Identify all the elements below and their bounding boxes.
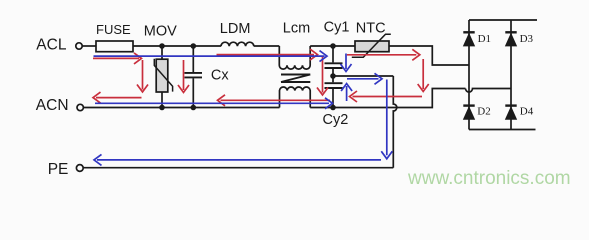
diode D4	[505, 104, 516, 106]
capacitor Cy2 plates	[325, 83, 343, 88]
bridge bottom rail	[469, 129, 536, 131]
red differential current arrow under fuse	[93, 53, 142, 64]
wire ACN stub	[84, 107, 280, 109]
junction dot Cx bottom	[191, 105, 197, 111]
bridge right rail	[510, 20, 512, 130]
wire fuse to LDM	[133, 45, 221, 47]
blue arrow down through Cy1	[341, 54, 352, 72]
red return arrow middle segment	[218, 95, 331, 106]
junction dot Cy2 bottom	[330, 105, 336, 111]
capacitor Cy1 top lead	[332, 46, 334, 62]
red return arrow right segment	[350, 91, 423, 102]
varistor MOV body	[156, 59, 168, 92]
NTC diagonal stroke	[352, 34, 391, 57]
svg-text:Cx: Cx	[211, 68, 229, 84]
svg-text:D1: D1	[478, 33, 491, 45]
capacitor Cy1 to mid node	[332, 69, 334, 76]
wire ACL to fuse	[82, 45, 96, 47]
wire LDM to Lcm	[254, 45, 279, 47]
red arrow down into bridge	[418, 59, 429, 92]
svg-text:LDM: LDM	[220, 21, 251, 37]
svg-text:www.cntronics.com: www.cntronics.com	[407, 168, 571, 189]
red arrow down left of MOV	[137, 60, 148, 92]
svg-text:Cy2: Cy2	[323, 112, 349, 128]
svg-text:NTC: NTC	[356, 21, 386, 37]
blue arrow mid node to PE drop	[347, 73, 382, 84]
diode D2	[463, 104, 474, 106]
red arrow under NTC	[347, 49, 420, 60]
capacitor Cx plates	[185, 73, 203, 78]
svg-text:PE: PE	[48, 161, 69, 178]
bridge top rail	[469, 19, 537, 21]
varistor MOV stub top	[161, 46, 163, 59]
diode D1	[463, 31, 474, 33]
junction dot Cy mid node	[330, 73, 336, 79]
blue arrow up through Cy2	[341, 84, 352, 102]
wire NTC to bridge step	[389, 46, 469, 65]
MOV diagonal stroke	[154, 59, 172, 92]
terminal PE	[76, 165, 83, 172]
thermistor NTC body	[355, 41, 389, 52]
terminal ACL	[76, 43, 82, 49]
svg-text:Lcm: Lcm	[283, 21, 310, 37]
capacitor Cx top lead	[192, 46, 194, 72]
terminal ACN	[77, 104, 83, 110]
varistor MOV stub bottom	[161, 92, 163, 108]
red arrow under LDM	[217, 49, 318, 60]
blue return arrow to PE	[94, 154, 381, 165]
blue line down to PE level	[381, 80, 392, 159]
red return arrow to ACN	[93, 92, 142, 103]
wire bottom Lcm to step	[310, 89, 465, 108]
inductor Lcm bottom winding	[280, 87, 311, 107]
wire PE vertical with hop	[393, 76, 397, 168]
svg-text:D3: D3	[520, 33, 534, 45]
svg-text:D4: D4	[520, 106, 534, 118]
wire hop over left rail	[466, 89, 512, 93]
red arrow down right of MOV	[178, 60, 189, 93]
wire PE horizontal	[84, 167, 394, 169]
svg-text:D2: D2	[477, 106, 490, 118]
wire Lcm to NTC	[310, 45, 355, 47]
svg-text:Cy1: Cy1	[324, 20, 350, 36]
svg-text:ACN: ACN	[36, 97, 69, 114]
fuse FUSE	[96, 41, 133, 52]
svg-text:MOV: MOV	[144, 24, 177, 40]
Lcm core bars	[281, 75, 310, 83]
diode D3	[505, 31, 516, 33]
capacitor Cy2 top lead	[332, 76, 334, 82]
blue common mode line on top	[94, 51, 328, 62]
junction dot Cy1 top	[330, 43, 336, 49]
junction dot MOV bottom	[159, 105, 165, 111]
inductor LDM	[221, 42, 254, 46]
bridge left rail	[468, 20, 470, 130]
wire mid node to PE drop	[333, 75, 393, 77]
capacitor Cy2 bottom lead	[332, 89, 334, 108]
red arrow down after Lcm	[317, 57, 328, 95]
inductor Lcm top winding	[279, 46, 310, 69]
blue common mode line on bottom	[95, 98, 333, 109]
junction dot Cx top	[191, 43, 197, 49]
svg-text:ACL: ACL	[36, 37, 67, 54]
capacitor Cx bottom lead	[192, 78, 194, 107]
svg-text:FUSE: FUSE	[96, 22, 131, 37]
junction dot MOV top	[159, 43, 165, 49]
capacitor Cy1 plates	[325, 63, 343, 68]
